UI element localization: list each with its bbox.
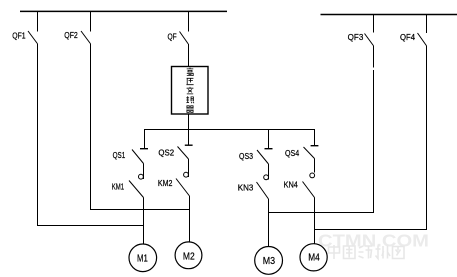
- disconnect QS4: [311, 145, 319, 147]
- right bus: [321, 14, 457, 16]
- box text 高压变频器 (hand-drawn tiny glyphs): [186, 68, 194, 113]
- contactor KM2: [184, 172, 189, 177]
- svg-text:M3: M3: [263, 256, 276, 267]
- wire QF4 to M4 feed: [315, 46, 427, 230]
- wire box to QS2: [188, 114, 190, 145]
- wire QF1 to M1 feed: [38, 44, 144, 226]
- svg-text:QF1: QF1: [12, 31, 26, 40]
- left bus: [20, 10, 227, 12]
- svg-text:QF3: QF3: [348, 33, 364, 42]
- wire KM1 to M1: [143, 198, 145, 245]
- disconnect QS3: [268, 130, 270, 149]
- svg-text:QS3: QS3: [239, 152, 253, 161]
- char 器: [186, 106, 193, 113]
- motor M1: [129, 244, 157, 272]
- svg-text:KM1: KM1: [112, 182, 125, 191]
- wire QF3 to M3 feed: [269, 46, 374, 213]
- wire KN3 to M3: [268, 199, 270, 247]
- contactor KN4: [310, 173, 315, 178]
- svg-text:KN3: KN3: [238, 184, 254, 193]
- VFD box: [172, 67, 209, 115]
- svg-text:M1: M1: [137, 253, 148, 264]
- breaker QF1: [37, 11, 39, 31]
- char 变: [187, 87, 194, 94]
- char 频: [186, 96, 194, 103]
- svg-text:QS4: QS4: [285, 149, 300, 158]
- wire: [314, 159, 316, 173]
- char 高: [187, 68, 194, 76]
- breaker QF3: [373, 15, 375, 33]
- breaker QF: [188, 11, 190, 31]
- contactor KN3: [264, 175, 269, 180]
- svg-text:QS2: QS2: [158, 148, 174, 157]
- svg-text:QF: QF: [168, 32, 177, 41]
- svg-text:M4: M4: [308, 253, 320, 264]
- disconnect QS2: [185, 144, 193, 146]
- wire: [268, 164, 270, 180]
- breaker QF2: [90, 11, 92, 31]
- svg-text:QS1: QS1: [113, 151, 126, 160]
- svg-text:M2: M2: [183, 251, 195, 262]
- watermark CTMN.COM: [318, 231, 429, 251]
- wire: [143, 164, 145, 180]
- contactor KM1: [139, 174, 144, 179]
- svg-text:QF2: QF2: [64, 31, 78, 40]
- wire: [188, 159, 190, 177]
- wire QF2 to M2 feed: [91, 44, 190, 210]
- motor M2: [175, 242, 202, 269]
- wire KN4 to M4: [314, 198, 316, 244]
- motor M3: [255, 247, 283, 275]
- watermark 中国纺机网 (hand-drawn light glyph shapes): [329, 245, 405, 259]
- svg-text:QF4: QF4: [400, 33, 416, 42]
- motor M4: [300, 244, 327, 271]
- wire KM2 to M2: [189, 196, 191, 242]
- VFD output bus: [145, 130, 315, 149]
- breaker QF4: [426, 15, 428, 33]
- svg-text:KM2: KM2: [158, 179, 173, 188]
- svg-text:KN4: KN4: [284, 181, 299, 190]
- char 压: [186, 78, 193, 84]
- wire QF to VFD box: [188, 44, 190, 67]
- disconnect QS1: [140, 148, 148, 150]
